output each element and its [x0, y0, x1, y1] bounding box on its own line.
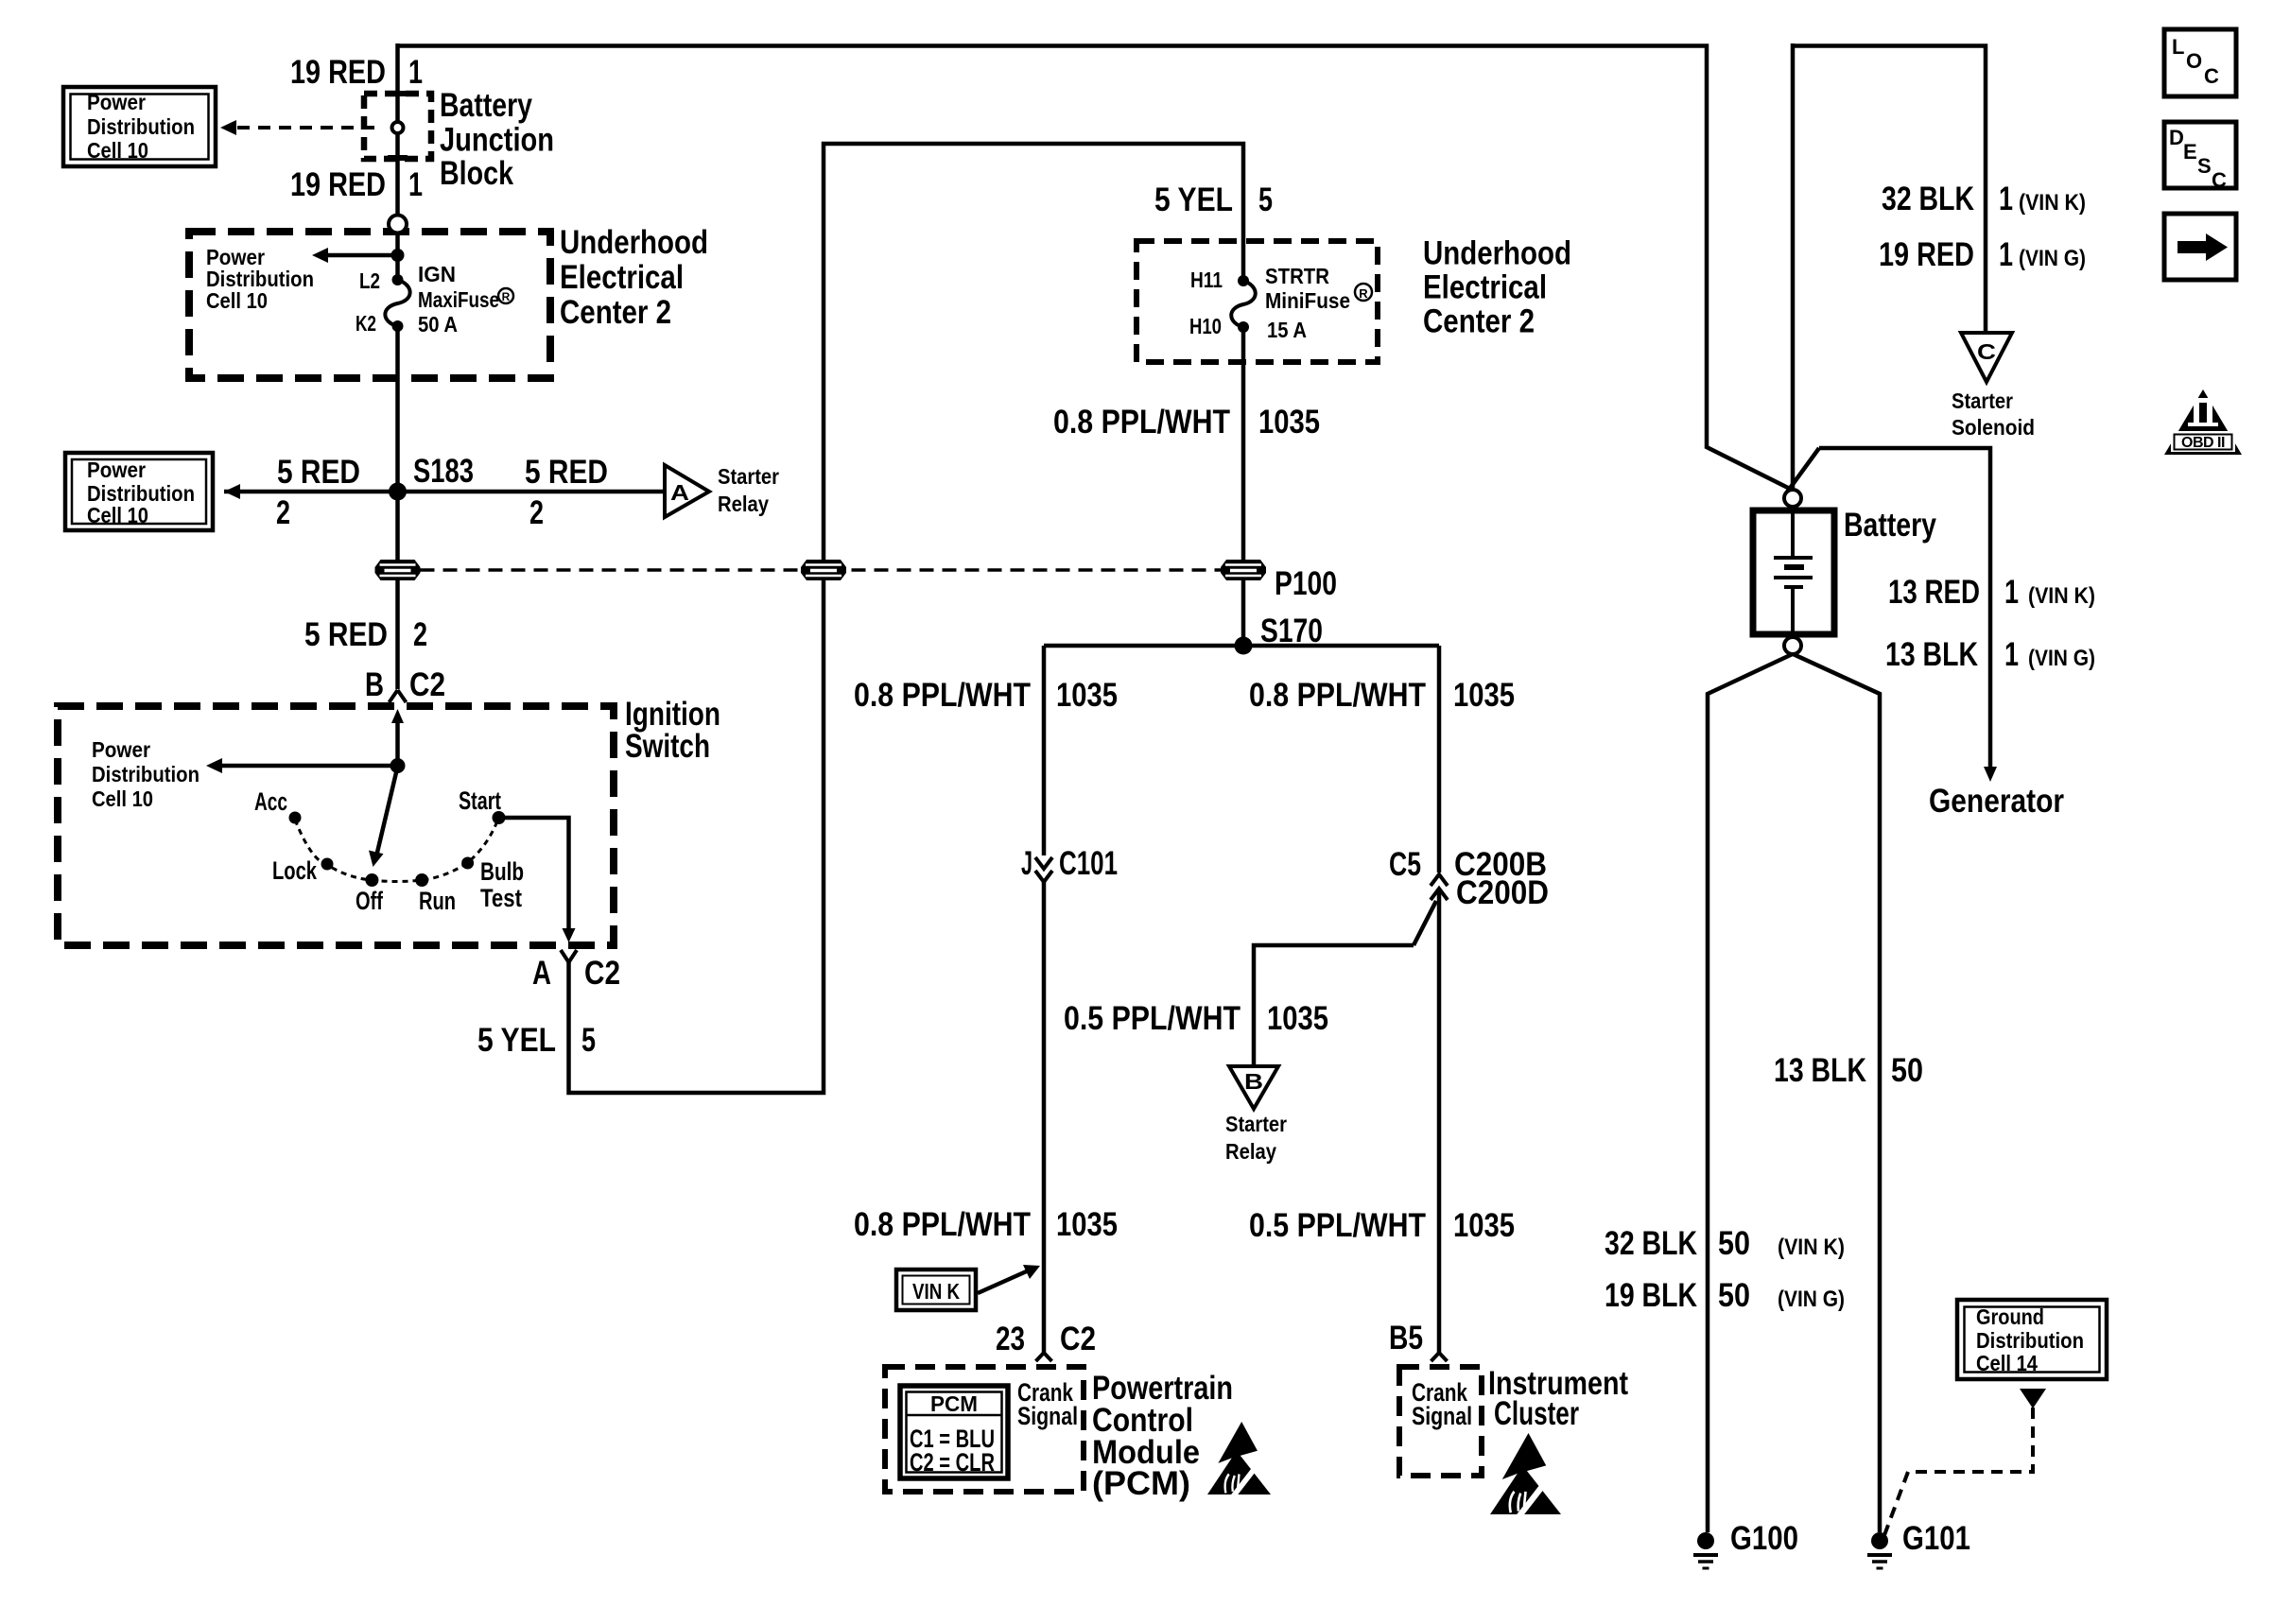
- svg-text:(VIN G): (VIN G): [2028, 646, 2095, 671]
- svg-text:MaxiFuse: MaxiFuse: [418, 287, 499, 312]
- svg-text:S170: S170: [1260, 613, 1323, 649]
- svg-text:(VIN K): (VIN K): [1778, 1235, 1845, 1260]
- svg-text:Battery: Battery: [1844, 507, 1936, 544]
- svg-text:5 RED: 5 RED: [304, 616, 388, 653]
- svg-text:(PCM): (PCM): [1092, 1465, 1190, 1502]
- svg-text:19 RED: 19 RED: [290, 166, 386, 203]
- svg-text:K2: K2: [356, 311, 376, 336]
- svg-text:MiniFuse: MiniFuse: [1265, 288, 1350, 313]
- svg-text:Center 2: Center 2: [560, 294, 671, 331]
- svg-text:19 RED: 19 RED: [290, 54, 386, 91]
- svg-text:C2: C2: [409, 666, 445, 703]
- svg-text:Bulb: Bulb: [480, 857, 524, 886]
- svg-text:50: 50: [1718, 1277, 1750, 1314]
- svg-text:Acc: Acc: [254, 787, 287, 816]
- svg-text:Relay: Relay: [718, 492, 769, 516]
- svg-text:S: S: [2197, 154, 2212, 178]
- svg-text:Starter: Starter: [1225, 1112, 1287, 1136]
- svg-text:Cell 10: Cell 10: [87, 138, 148, 163]
- svg-text:H10: H10: [1189, 314, 1222, 338]
- svg-text:0.5 PPL/WHT: 0.5 PPL/WHT: [1064, 1000, 1241, 1037]
- svg-text:C: C: [2212, 168, 2227, 192]
- svg-text:Block: Block: [440, 155, 513, 192]
- svg-text:J: J: [1021, 845, 1032, 882]
- svg-text:32 BLK: 32 BLK: [1605, 1225, 1697, 1262]
- svg-text:5 RED: 5 RED: [277, 454, 360, 491]
- svg-text:Cell 14: Cell 14: [1976, 1351, 2038, 1375]
- svg-text:Underhood: Underhood: [1423, 235, 1571, 272]
- svg-text:Distribution: Distribution: [92, 762, 200, 786]
- svg-text:Electrical: Electrical: [1423, 269, 1547, 306]
- svg-text:A: A: [670, 480, 689, 505]
- svg-text:(VIN K): (VIN K): [2028, 583, 2095, 609]
- svg-text:B5: B5: [1389, 1320, 1423, 1356]
- svg-text:C2: C2: [584, 955, 620, 992]
- svg-text:1035: 1035: [1056, 677, 1118, 714]
- svg-text:Starter: Starter: [718, 464, 779, 489]
- svg-text:1035: 1035: [1453, 1207, 1515, 1244]
- svg-text:0.8 PPL/WHT: 0.8 PPL/WHT: [854, 1206, 1031, 1243]
- svg-text:5: 5: [581, 1022, 596, 1059]
- svg-text:1: 1: [1999, 236, 2013, 273]
- svg-text:19 RED: 19 RED: [1879, 236, 1974, 273]
- svg-text:0.8 PPL/WHT: 0.8 PPL/WHT: [854, 677, 1031, 714]
- svg-text:R: R: [502, 290, 511, 303]
- svg-text:OBD II: OBD II: [2181, 435, 2225, 451]
- svg-text:Cell 10: Cell 10: [206, 288, 268, 313]
- svg-text:1035: 1035: [1056, 1206, 1118, 1243]
- svg-text:19 BLK: 19 BLK: [1605, 1277, 1697, 1314]
- svg-text:50: 50: [1718, 1225, 1750, 1262]
- svg-text:1035: 1035: [1267, 1000, 1328, 1037]
- svg-text:23: 23: [996, 1321, 1025, 1357]
- svg-text:1: 1: [2004, 574, 2019, 611]
- svg-text:VIN K: VIN K: [912, 1279, 960, 1304]
- svg-text:Battery: Battery: [440, 87, 532, 124]
- svg-text:Relay: Relay: [1225, 1139, 1276, 1164]
- svg-text:5 YEL: 5 YEL: [477, 1022, 556, 1059]
- svg-text:Cluster: Cluster: [1494, 1395, 1579, 1432]
- svg-text:H11: H11: [1190, 268, 1223, 292]
- svg-text:0.5 PPL/WHT: 0.5 PPL/WHT: [1249, 1207, 1426, 1244]
- svg-text:5: 5: [1258, 181, 1273, 218]
- svg-text:Run: Run: [419, 887, 456, 915]
- svg-text:Lock: Lock: [272, 856, 318, 885]
- svg-text:13 BLK: 13 BLK: [1774, 1052, 1866, 1089]
- svg-text:L2: L2: [359, 268, 380, 293]
- svg-text:C2: C2: [1060, 1321, 1096, 1357]
- svg-text:Power: Power: [92, 737, 150, 762]
- svg-text:C2 = CLR: C2 = CLR: [910, 1448, 995, 1477]
- svg-text:Center 2: Center 2: [1423, 303, 1535, 340]
- svg-text:Switch: Switch: [625, 728, 710, 765]
- svg-text:0.8 PPL/WHT: 0.8 PPL/WHT: [1249, 677, 1426, 714]
- svg-text:Cell 10: Cell 10: [92, 786, 153, 811]
- svg-text:G100: G100: [1730, 1520, 1798, 1557]
- svg-text:0.8 PPL/WHT: 0.8 PPL/WHT: [1053, 404, 1230, 441]
- svg-text:Cell 10: Cell 10: [87, 503, 148, 527]
- svg-text:Distribution: Distribution: [87, 114, 195, 139]
- svg-text:Power: Power: [87, 458, 146, 482]
- svg-text:G101: G101: [1902, 1520, 1970, 1557]
- svg-text:32 BLK: 32 BLK: [1882, 181, 1974, 217]
- svg-text:P100: P100: [1275, 565, 1337, 602]
- svg-text:Test: Test: [480, 884, 522, 912]
- svg-text:Junction: Junction: [440, 122, 554, 159]
- svg-text:B: B: [365, 666, 384, 703]
- svg-text:Signal: Signal: [1412, 1402, 1472, 1430]
- svg-text:1035: 1035: [1258, 404, 1320, 441]
- svg-text:(VIN G): (VIN G): [1778, 1287, 1845, 1312]
- svg-text:L: L: [2172, 35, 2184, 59]
- svg-text:50: 50: [1891, 1052, 1923, 1089]
- svg-text:(VIN G): (VIN G): [2019, 246, 2086, 271]
- svg-text:2: 2: [276, 494, 290, 531]
- svg-text:Underhood: Underhood: [560, 224, 708, 261]
- svg-text:IGN: IGN: [418, 262, 456, 286]
- svg-text:50 A: 50 A: [418, 312, 458, 337]
- svg-text:C: C: [2204, 64, 2219, 88]
- svg-text:(VIN K): (VIN K): [2019, 190, 2086, 216]
- svg-text:Signal: Signal: [1017, 1402, 1078, 1430]
- svg-text:C: C: [1977, 339, 1996, 364]
- svg-text:C5: C5: [1389, 846, 1421, 883]
- svg-text:1035: 1035: [1453, 677, 1515, 714]
- svg-text:13 RED: 13 RED: [1888, 574, 1980, 611]
- svg-text:Start: Start: [459, 786, 501, 815]
- svg-text:PCM: PCM: [930, 1391, 978, 1416]
- svg-text:Power: Power: [87, 90, 146, 114]
- svg-text:Generator: Generator: [1929, 783, 2064, 820]
- svg-text:A: A: [532, 955, 551, 992]
- svg-text:1: 1: [2004, 636, 2019, 673]
- svg-text:Ground: Ground: [1976, 1304, 2044, 1329]
- svg-text:C200D: C200D: [1456, 874, 1549, 911]
- svg-text:5 RED: 5 RED: [525, 454, 608, 491]
- svg-text:1: 1: [408, 166, 423, 203]
- svg-text:1: 1: [408, 54, 423, 91]
- svg-text:1: 1: [1999, 181, 2013, 217]
- svg-text:STRTR: STRTR: [1265, 264, 1329, 288]
- svg-text:D: D: [2169, 126, 2184, 149]
- svg-text:Off: Off: [356, 887, 384, 915]
- svg-text:R: R: [1359, 286, 1368, 301]
- svg-text:O: O: [2186, 49, 2202, 73]
- svg-text:15 A: 15 A: [1267, 318, 1307, 342]
- svg-text:B: B: [1244, 1069, 1263, 1094]
- svg-text:E: E: [2183, 140, 2197, 164]
- svg-text:2: 2: [413, 616, 427, 653]
- svg-text:5 YEL: 5 YEL: [1154, 181, 1233, 218]
- svg-text:13 BLK: 13 BLK: [1885, 636, 1978, 673]
- svg-text:Electrical: Electrical: [560, 259, 684, 296]
- svg-text:Solenoid: Solenoid: [1952, 415, 2035, 440]
- svg-text:2: 2: [529, 494, 544, 531]
- svg-text:Starter: Starter: [1952, 389, 2013, 413]
- svg-text:S183: S183: [413, 453, 474, 490]
- svg-text:C101: C101: [1059, 845, 1118, 882]
- svg-text:Distribution: Distribution: [1976, 1328, 2084, 1353]
